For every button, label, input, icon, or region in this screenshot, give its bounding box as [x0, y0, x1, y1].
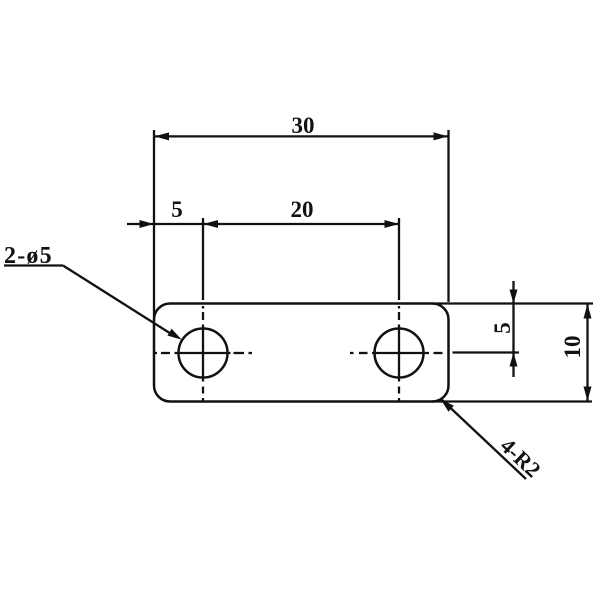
dimension 5/20 line [127, 223, 399, 225]
leader arrow 4-R2 [441, 399, 454, 412]
leader arrow 2-dia5 [167, 329, 181, 340]
dimension 30 arrow left [155, 132, 170, 140]
svg-text:10: 10 [560, 336, 585, 359]
dimension 10 text [560, 336, 585, 359]
hole H1 (left) [179, 329, 228, 378]
dimension 10 arrow bottom [584, 387, 592, 402]
plate outline [154, 304, 449, 402]
dimension 20 extension line (hole H2 center) [398, 218, 400, 300]
dimension 20 arrow left [204, 220, 219, 228]
top edge extension line [432, 302, 593, 304]
dimension 5 right text [490, 322, 515, 334]
bottom edge extension line [432, 400, 592, 402]
leader line 2-dia5 [63, 266, 176, 338]
dimension 5 extension line (hole H1 center) [202, 218, 204, 300]
dimension 30 extension line right [447, 130, 449, 302]
center line H1 horizontal [154, 352, 252, 354]
dimension 30 arrow right [434, 132, 449, 140]
dimension 5 right extension (hole center) [453, 351, 520, 353]
dimension 20 arrow right [385, 220, 400, 228]
label 2-dia5 text [4, 243, 53, 269]
dimension 5 arrow outside-left [140, 220, 155, 228]
dimension 5 text [171, 197, 183, 222]
svg-text:20: 20 [291, 197, 314, 222]
hole H2 (right) [375, 329, 424, 378]
dimension 5 right line [512, 281, 514, 377]
center line H2 vertical [398, 306, 400, 401]
dimension 20 text [291, 197, 314, 222]
label 4-R2 text [496, 433, 546, 482]
svg-text:5: 5 [490, 322, 515, 334]
center line H1 vertical [202, 306, 204, 401]
dimension 30 line [154, 135, 449, 137]
center line H2 horizontal [350, 352, 443, 354]
dimension 10 line [586, 304, 588, 402]
dimension 30 extension line left [153, 130, 155, 318]
dimension 5 right arrow top [510, 290, 518, 304]
dimension 30 text [292, 113, 315, 138]
dimension 5 right arrow bottom [510, 353, 518, 367]
svg-text:30: 30 [292, 113, 315, 138]
leader line 4-R2 [441, 399, 526, 479]
label 2-dia5 underline [4, 264, 63, 266]
dimension 10 arrow top [584, 304, 592, 319]
svg-text:5: 5 [171, 197, 183, 222]
